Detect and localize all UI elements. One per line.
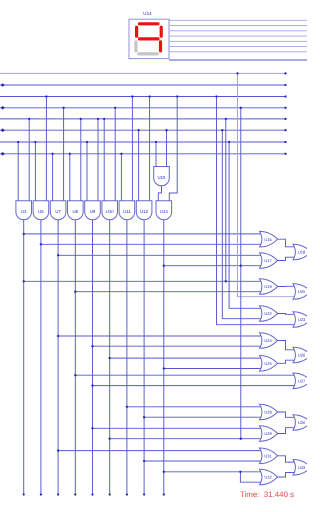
OR gate U24 — [260, 333, 278, 349]
svg-text:U22: U22 — [264, 311, 272, 316]
wire OR output jog — [278, 456, 295, 462]
wire branch to OR input — [58, 450, 261, 452]
input terminal — [1, 106, 5, 110]
wire branch to OR input — [144, 460, 261, 462]
OR gate U26 — [293, 347, 311, 363]
svg-text:U29: U29 — [264, 431, 272, 436]
svg-text:U15: U15 — [158, 175, 166, 180]
wire branch to OR input — [93, 345, 262, 347]
svg-text:U13: U13 — [160, 209, 168, 214]
bus wire Q1 — [0, 107, 286, 109]
wire AND output vertical — [23, 220, 25, 495]
wire U13 input B (stepped from bus) — [169, 97, 177, 201]
bus wire Q0' — [0, 72, 286, 74]
OR gate U33 — [293, 460, 311, 476]
svg-text:U9: U9 — [90, 209, 96, 214]
wire AND output vertical — [40, 220, 42, 495]
wire OR output jog — [278, 412, 295, 417]
OR gate U19 — [260, 279, 278, 295]
input terminal — [1, 128, 5, 132]
wire bus Q1 vertical with junctions — [240, 108, 242, 439]
wire branch to OR input — [41, 243, 261, 245]
svg-text:U27: U27 — [298, 379, 306, 384]
wire bus tap — [86, 142, 88, 201]
wire branch to OR input — [127, 406, 261, 408]
wire AND output vertical — [109, 220, 111, 495]
OR gate U22 — [260, 306, 278, 322]
wire AND output vertical — [143, 220, 145, 495]
OR gate U20 — [293, 284, 311, 300]
OR gate U25 — [260, 356, 278, 372]
7-segment display U14 — [129, 19, 169, 58]
bus wire Q2' — [0, 118, 286, 120]
AND gate U8 — [68, 201, 84, 220]
wire bus tap — [149, 97, 151, 201]
AND gate U5 — [33, 201, 49, 220]
wire OR output jog — [278, 341, 295, 350]
wire branch to OR input — [75, 291, 261, 293]
wire branch to OR input — [24, 280, 261, 282]
wire AND output vertical — [126, 220, 128, 495]
svg-text:U25: U25 — [264, 361, 272, 366]
wire bus tap — [17, 142, 19, 201]
bus wire Q0 — [0, 84, 286, 86]
wire AND output vertical — [57, 220, 59, 495]
wire AND output vertical — [92, 220, 94, 495]
svg-text:U16: U16 — [264, 237, 272, 242]
bus wire Q3' — [0, 141, 286, 143]
wire branch to OR input — [164, 265, 261, 267]
junction on U29 input B line — [240, 438, 242, 440]
svg-text:U28: U28 — [264, 410, 272, 415]
bus wire Q3 — [0, 153, 286, 155]
AND gate U13 — [156, 201, 172, 220]
wire branch to OR input — [110, 438, 261, 440]
wire bus tap — [80, 119, 82, 201]
AND gate U9 — [85, 201, 101, 220]
wire OR output jog — [278, 239, 295, 247]
svg-text:U33: U33 — [298, 465, 306, 470]
wire display pin 6 — [169, 46, 307, 48]
wire U15 input B — [166, 130, 168, 166]
wire display pin 5 — [169, 40, 307, 42]
svg-text:U18: U18 — [298, 250, 306, 255]
wire branch to OR input — [164, 471, 261, 473]
AND gate U3 — [16, 201, 32, 220]
OR gate U27 — [293, 373, 311, 389]
OR gate U31 — [260, 448, 278, 464]
wire branch to OR input — [164, 368, 261, 370]
wire bus tap — [114, 108, 116, 201]
wire bus tap — [34, 142, 36, 201]
junction on U17 input B line — [240, 265, 242, 267]
wire bus tap — [52, 154, 54, 201]
OR gate U23 — [293, 312, 311, 328]
wire display pin 3 — [169, 30, 307, 32]
OR gate U30 — [293, 415, 311, 431]
wire OR output jog — [278, 360, 295, 363]
wire branch to OR input — [93, 385, 295, 387]
wire bus tap — [103, 119, 105, 201]
bus wire Q1' — [0, 96, 286, 98]
wire branch to U32 input B — [240, 472, 261, 482]
bus wire Q2 — [0, 129, 286, 131]
wire bus tap — [69, 154, 71, 201]
wire branch to OR input — [24, 233, 261, 235]
wire display pin 7 — [169, 51, 307, 53]
wire display pin 2 — [169, 25, 307, 27]
wire branch to OR input — [93, 427, 262, 429]
OR gate U28 — [260, 404, 278, 420]
svg-text:U23: U23 — [298, 317, 306, 322]
wire branch to OR input — [58, 254, 261, 256]
svg-text:U20: U20 — [298, 289, 306, 294]
AND gate U7 — [50, 201, 66, 220]
wire AND output vertical — [74, 220, 76, 495]
input terminal — [1, 152, 5, 156]
svg-text:U32: U32 — [264, 475, 272, 480]
svg-text:U24: U24 — [264, 338, 272, 343]
wire bus Q2' to U19 input A junction — [225, 119, 227, 281]
input terminal — [1, 83, 5, 87]
AND gate U10 — [102, 201, 118, 220]
svg-text:U19: U19 — [264, 284, 272, 289]
wire bus tap — [120, 154, 122, 201]
wire branch to OR input — [110, 357, 261, 359]
wire display pin 1 — [169, 19, 307, 21]
svg-text:U11: U11 — [123, 209, 131, 214]
wire OR output jog — [278, 473, 295, 478]
wire branch to OR input — [58, 335, 261, 337]
svg-text:U7: U7 — [55, 209, 61, 214]
wire AND output vertical — [163, 220, 165, 495]
wire branch to OR input — [144, 416, 261, 418]
svg-text:Time: 31.440 s: Time: 31.440 s — [240, 490, 294, 499]
OR gate U18 — [293, 244, 311, 260]
wire U15 input A — [155, 142, 157, 167]
OR gate U32 — [260, 469, 278, 485]
wire selected net to U20 input B — [238, 73, 295, 296]
svg-text:U30: U30 — [298, 420, 306, 425]
wire bus tap — [97, 119, 99, 201]
svg-text:U14: U14 — [143, 11, 152, 16]
wire bus tap — [28, 119, 30, 201]
OR gate U17 — [260, 253, 278, 269]
wire OR output jog — [278, 313, 295, 316]
wire branch to OR input — [75, 374, 294, 376]
AND gate U12 — [136, 201, 152, 220]
svg-text:U8: U8 — [73, 209, 79, 214]
wire bus tap — [131, 97, 133, 201]
wire bus tap — [63, 108, 65, 201]
wire bus Q1' to U23 input B — [217, 97, 295, 325]
wire display pin 4 — [169, 35, 307, 37]
OR gate U16 — [260, 231, 278, 247]
svg-text:U17: U17 — [264, 258, 272, 263]
wire U15 output to U13 input A — [158, 186, 161, 201]
svg-text:U5: U5 — [38, 209, 44, 214]
wire OR output jog — [278, 428, 295, 434]
wire bus Q3' to U22 input A — [229, 142, 261, 308]
svg-text:U12: U12 — [140, 209, 148, 214]
OR gate U29 — [260, 426, 278, 442]
AND gate U11 — [119, 201, 135, 220]
wire display pin 8 — [169, 59, 307, 61]
svg-text:U10: U10 — [106, 209, 114, 214]
svg-text:U31: U31 — [264, 454, 272, 459]
wire bus tap — [45, 97, 47, 201]
wire OR output jog — [278, 257, 295, 260]
wire bus Q2 to U22 input B — [222, 130, 261, 319]
svg-text:U26: U26 — [298, 353, 306, 358]
wire bus tap — [138, 130, 140, 201]
AND gate U15 — [154, 167, 170, 186]
svg-text:U3: U3 — [21, 209, 27, 214]
wire OR output jog — [278, 285, 295, 287]
